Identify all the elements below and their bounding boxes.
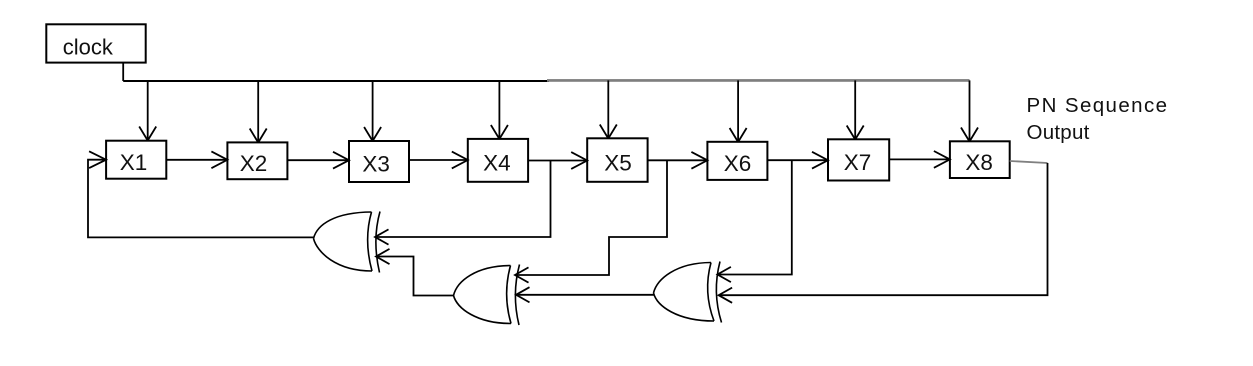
svg-text:PN Sequence: PN Sequence: [1027, 94, 1169, 117]
clock box: [46, 24, 145, 62]
wire tap between X6 and X7 down to XOR U3 upper input: [717, 160, 791, 282]
wire X1 to X2: [166, 151, 227, 168]
wire clock drop to X2: [250, 81, 267, 143]
wire X7 to X8: [889, 151, 950, 168]
wire X3 to X4: [409, 152, 468, 169]
xor gate U3: [654, 262, 722, 323]
label PN Sequence Output: [1027, 94, 1169, 144]
svg-text:Output: Output: [1027, 121, 1090, 144]
wire clock drop to X3: [364, 81, 381, 141]
wire clock drop to X6: [730, 80, 747, 142]
wire clock drop to X8: [961, 80, 978, 141]
wire clock drop to X5: [600, 80, 617, 138]
register X1: [106, 141, 166, 179]
svg-text:X2: X2: [240, 151, 268, 176]
wire clock drop to X1: [139, 81, 156, 141]
wire clock drop to X4: [491, 81, 508, 139]
wire clock drop to X7: [847, 80, 864, 139]
wire X8 output stub (gray): [1010, 161, 1048, 163]
wire X4 to X5: [528, 152, 587, 169]
svg-text:X3: X3: [362, 152, 390, 177]
svg-text:clock: clock: [63, 34, 114, 59]
register X8: [950, 141, 1010, 178]
wire clock rail black segment: [123, 80, 549, 82]
svg-text:X5: X5: [604, 150, 632, 175]
svg-text:X1: X1: [120, 150, 148, 175]
svg-text:X6: X6: [724, 151, 752, 176]
wire clock stem: [122, 63, 124, 81]
register X2: [227, 142, 287, 179]
wire clock rail gray segment: [547, 79, 970, 82]
wire XOR U2 output left, up, to XOR U1 lower input: [376, 249, 454, 296]
wire XOR U3 output to XOR U2 lower input: [516, 287, 654, 302]
wire XOR U1 output left, up, into X1: [88, 151, 314, 237]
xor gate U2: [454, 265, 520, 326]
register X6: [707, 142, 767, 180]
svg-text:X4: X4: [483, 151, 511, 176]
register X4: [468, 139, 528, 182]
wire X2 to X3: [287, 152, 349, 169]
wire X5 to X6: [648, 152, 708, 169]
wire X6 to X7: [767, 152, 828, 169]
register X5: [587, 138, 647, 182]
wire X8 feedback down and left to XOR U3 lower input: [719, 163, 1048, 303]
svg-text:X8: X8: [965, 150, 993, 175]
wire tap between X5 and X6 down to XOR U2 upper input: [515, 160, 667, 282]
xor gate U1: [314, 212, 381, 273]
svg-text:X7: X7: [844, 150, 872, 175]
register X7: [828, 139, 889, 180]
wire tap between X4 and X5 down to XOR U1 upper input: [375, 161, 551, 245]
register X3: [349, 141, 409, 182]
